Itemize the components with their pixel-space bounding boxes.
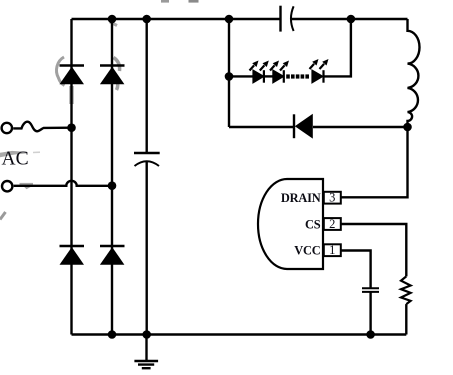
svg-text:1: 1 bbox=[329, 243, 335, 257]
svg-text:3: 3 bbox=[329, 191, 335, 205]
diode D1 top-left of bridge bbox=[60, 66, 85, 85]
resistor R1 bbox=[401, 276, 411, 304]
LED2 bbox=[273, 70, 284, 83]
capacitor C1 top bbox=[281, 6, 294, 32]
node bottom wire / D4 branch bbox=[108, 330, 117, 339]
wire VCC to capacitor C3 bbox=[341, 251, 371, 289]
ground bbox=[134, 335, 158, 369]
wire neutral with crossover hop bbox=[14, 181, 112, 186]
capacitor C2 bulk filter bbox=[134, 19, 160, 335]
AC terminal live bbox=[2, 123, 12, 133]
LED1 bbox=[253, 70, 264, 83]
svg-text:AC: AC bbox=[2, 149, 29, 170]
gray watermark remnants bbox=[0, 1, 199, 219]
node AC neutral junction bbox=[108, 181, 117, 190]
wire CS to resistor bbox=[341, 224, 407, 276]
diode D4 bottom-right of bridge bbox=[100, 246, 125, 265]
diode D3 bottom-left of bridge bbox=[60, 246, 85, 265]
inductor L1 bbox=[408, 19, 420, 127]
diode D5 freewheeling bbox=[294, 114, 313, 139]
fuse squiggle wire bbox=[13, 122, 71, 131]
node top wire / C2 branch bbox=[142, 15, 151, 24]
pin 2 box bbox=[324, 218, 341, 230]
LED3 light arrows bbox=[310, 59, 329, 69]
node top wire / LED return bbox=[347, 15, 356, 24]
wire second vertical bbox=[111, 19, 113, 335]
wire bottom horizontal bbox=[72, 333, 407, 335]
svg-text:DRAIN: DRAIN bbox=[281, 191, 321, 205]
LED3 bbox=[312, 70, 323, 83]
pin 1 box bbox=[324, 244, 341, 256]
wire LED branch left vertical bbox=[228, 19, 230, 127]
wire left vertical bbox=[70, 19, 72, 335]
node bottom wire / ground bbox=[142, 330, 151, 339]
wire top horizontal left segment bbox=[72, 18, 280, 20]
wire freewheel row bbox=[229, 126, 294, 128]
node top wire / LED branch bbox=[225, 15, 234, 24]
diode D2 top-right of bridge bbox=[100, 66, 125, 85]
wire top horizontal right segment bbox=[291, 18, 408, 20]
node LED row junction bbox=[225, 72, 234, 81]
capacitor C3 bbox=[362, 288, 379, 334]
wire LED row and right side bbox=[229, 75, 253, 77]
wire drain connection bbox=[341, 127, 408, 197]
IC U1 body bbox=[258, 179, 323, 269]
dotted continuation of LED string bbox=[286, 74, 309, 78]
LED2 light arrows bbox=[270, 61, 289, 71]
svg-text:2: 2 bbox=[329, 217, 335, 231]
wire resistor to bottom bbox=[405, 304, 407, 334]
node bottom wire / C3 bbox=[366, 330, 375, 339]
node top wire / D2 branch bbox=[108, 15, 117, 24]
svg-text:CS: CS bbox=[305, 217, 321, 231]
svg-text:VCC: VCC bbox=[294, 244, 320, 258]
pin 3 box bbox=[324, 192, 341, 204]
LED1 light arrows bbox=[250, 61, 269, 71]
node AC live junction bbox=[67, 123, 76, 132]
node inductor bottom junction bbox=[403, 123, 412, 132]
AC terminal neutral bbox=[2, 181, 12, 191]
